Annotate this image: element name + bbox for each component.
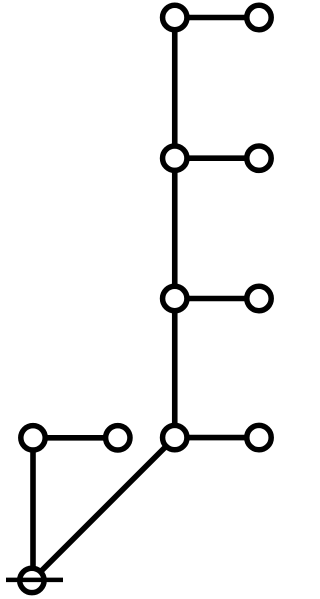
wire I-K: [32, 438, 175, 581]
node B: [247, 5, 271, 29]
node F: [247, 286, 271, 310]
node E: [163, 286, 187, 310]
node C: [163, 146, 187, 170]
wire C-D: [175, 155, 259, 161]
ground bar through K: [6, 578, 63, 583]
wire G-K: [30, 438, 36, 579]
wire E-I: [172, 299, 178, 438]
ground node K: [20, 568, 44, 592]
node G: [21, 426, 45, 450]
wire A-C: [172, 18, 178, 159]
wire G-H: [33, 435, 118, 441]
wire E-F: [175, 296, 259, 302]
node J: [247, 425, 271, 449]
wire I-J: [175, 435, 259, 441]
wire C-E: [172, 158, 178, 298]
node D: [247, 146, 271, 170]
node A: [163, 5, 187, 29]
node I: [163, 425, 187, 449]
node H: [106, 426, 130, 450]
wire A-B: [175, 15, 259, 21]
